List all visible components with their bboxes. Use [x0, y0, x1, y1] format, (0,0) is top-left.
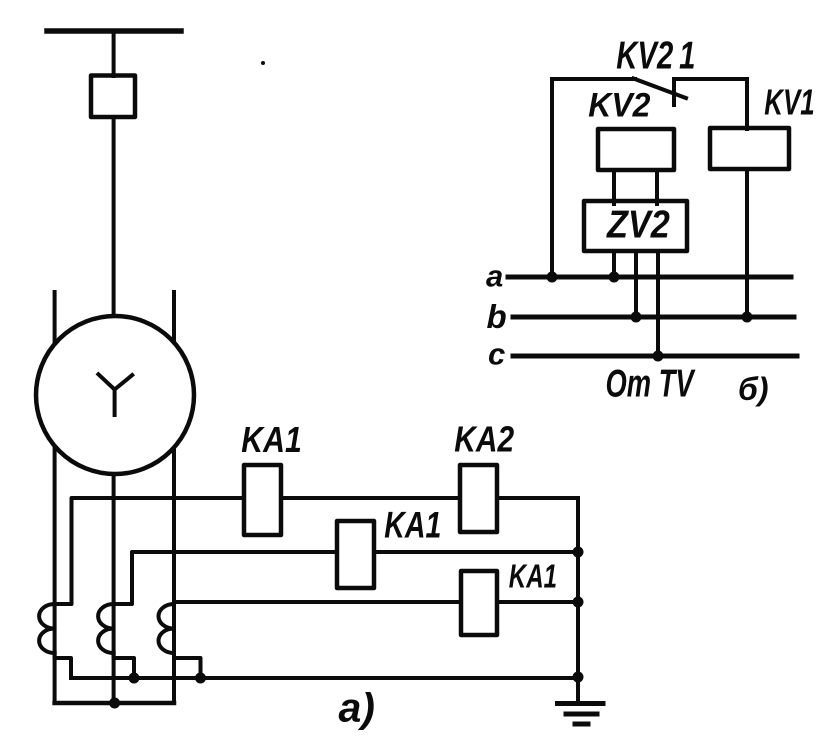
ink speck	[261, 61, 265, 65]
generator G1	[36, 316, 194, 474]
junction b ZV2	[631, 312, 642, 323]
wire ZV2 to line a	[612, 251, 616, 277]
svg-text:Om TV: Om TV	[606, 363, 696, 406]
svg-text:KV2 1: KV2 1	[616, 35, 695, 78]
wire KV2 lead left	[612, 170, 616, 204]
wire TA2 to row2	[114, 552, 337, 604]
wire TA3 secondary bottom	[174, 653, 201, 678]
circuit breaker Q1	[91, 76, 135, 118]
svg-text:KA1: KA1	[509, 559, 557, 596]
wire TA2 secondary bottom	[114, 653, 134, 678]
wire phase right	[172, 292, 176, 703]
contact KV2.1 fixed stub	[672, 79, 676, 105]
wire TA1 to row1	[55, 498, 244, 604]
wire contact left	[552, 77, 635, 81]
wire right return	[576, 498, 580, 701]
wire right branch to KV1	[745, 79, 749, 129]
CT TA3 winding	[159, 604, 175, 653]
wire KV1 to line b	[745, 169, 749, 317]
contact KV2.1 blade	[634, 79, 687, 99]
wire row3 right	[497, 600, 578, 604]
wire phase left	[53, 292, 57, 703]
CT TA2 winding	[98, 604, 114, 653]
wire row1 KA2 to right	[497, 496, 578, 500]
wire TA3 to row3	[174, 600, 461, 604]
wire ZV2 to line b	[634, 251, 638, 317]
wire TA1 secondary bottom	[55, 653, 71, 678]
relay KV2	[598, 129, 674, 170]
svg-text:KA1: KA1	[384, 504, 441, 545]
junction c ZV2	[653, 351, 664, 362]
svg-text:ZV2: ZV2	[606, 203, 670, 246]
svg-text:KV1: KV1	[764, 82, 814, 122]
junction TA3 bus	[195, 673, 206, 684]
svg-text:a: a	[486, 259, 503, 294]
svg-text:KA2: KA2	[454, 420, 514, 460]
filter ZV2	[584, 201, 687, 251]
junction a left	[547, 272, 558, 283]
wire contact right	[675, 77, 747, 81]
net line a	[508, 275, 791, 280]
net line c	[513, 354, 797, 359]
wire phase center lower	[112, 470, 116, 703]
ground	[558, 704, 604, 725]
wire row1 KA1 to KA2	[281, 496, 460, 500]
wire secondary bus	[71, 676, 578, 680]
junction TA2 bus	[129, 673, 140, 684]
wire breaker to generator	[112, 117, 116, 318]
wire KV2 lead right	[655, 170, 659, 204]
svg-text:b: b	[487, 298, 507, 335]
junction a ZV2	[609, 272, 620, 283]
CT TA1 winding	[39, 604, 55, 653]
wire busbar to breaker	[112, 31, 116, 76]
relay KA1 third	[461, 571, 497, 635]
busbar	[47, 28, 181, 34]
generator star symbol	[98, 374, 132, 415]
net line b	[513, 315, 794, 320]
relay KV1	[710, 128, 789, 169]
wire neutral bottom	[55, 701, 174, 706]
junction row2 right	[573, 547, 584, 558]
relay KA1 second	[337, 521, 374, 588]
svg-text:б): б)	[738, 371, 768, 407]
wire left branch to line a	[550, 79, 554, 277]
relay KA1 first	[244, 465, 281, 535]
svg-text:а): а)	[339, 685, 375, 731]
wire ZV2 to line c	[656, 251, 660, 356]
wire row2 right	[374, 550, 578, 554]
svg-text:KV2: KV2	[588, 86, 650, 124]
junction bus right	[573, 672, 584, 683]
junction row3 right	[573, 597, 584, 608]
svg-text:c: c	[488, 337, 505, 372]
junction neutral	[109, 698, 120, 709]
junction b KV1	[742, 312, 753, 323]
svg-text:KA1: KA1	[241, 421, 301, 461]
relay KA2	[460, 465, 497, 532]
